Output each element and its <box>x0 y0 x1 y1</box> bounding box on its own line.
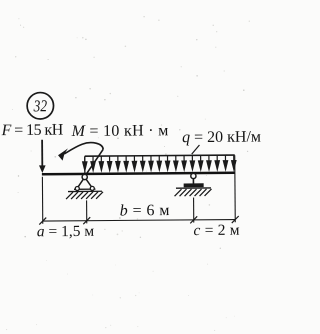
scan speckle noise <box>6 16 250 331</box>
svg-text:b = 6 м: b = 6 м <box>120 202 170 219</box>
dimension tick at right beam end <box>232 216 239 223</box>
svg-text:c = 2 м: c = 2 м <box>193 222 239 239</box>
dimension tick at left support <box>83 217 90 224</box>
distributed load q block <box>82 155 237 173</box>
force F arrow <box>39 140 46 173</box>
extension line right support <box>193 198 195 223</box>
load left end line <box>84 156 86 173</box>
load top line <box>85 155 235 156</box>
svg-text:a = 1,5 м: a = 1,5 м <box>37 223 95 240</box>
svg-text:32: 32 <box>33 96 47 115</box>
pin ground hatching <box>68 190 102 192</box>
problem number circle 32 <box>27 92 54 119</box>
svg-text:F = 15 кН: F = 15 кН <box>0 122 63 139</box>
roller support (right) <box>174 173 211 196</box>
pin support (left) <box>66 174 103 199</box>
dimension tick at left beam end <box>39 218 46 225</box>
svg-text:q = 20 кН/м: q = 20 кН/м <box>182 129 261 147</box>
dimension tick at right support <box>190 216 197 223</box>
svg-text:М = 10 кН · м: М = 10 кН · м <box>70 122 168 140</box>
extension line left beam end <box>41 177 43 224</box>
load pointer line <box>192 145 200 154</box>
dimension line <box>43 220 235 222</box>
roller ground hatching <box>176 187 211 189</box>
extension line left support <box>86 200 88 223</box>
extension line right beam end <box>234 155 237 222</box>
moment arrow M <box>58 143 103 178</box>
load arrows <box>82 155 237 173</box>
beam <box>42 173 235 175</box>
